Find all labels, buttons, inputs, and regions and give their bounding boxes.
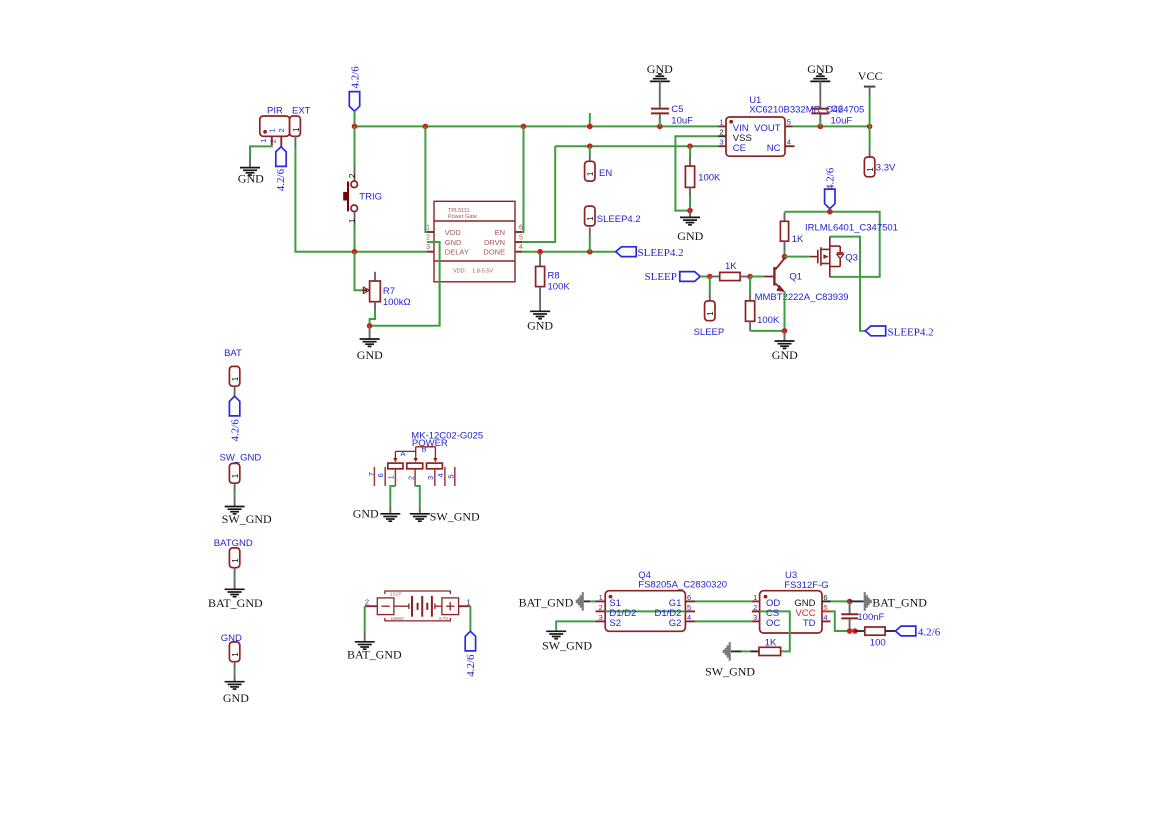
svg-text:DONE: DONE xyxy=(483,248,505,257)
net flag SLEEP xyxy=(645,271,701,283)
wire VOUT to VCC xyxy=(793,125,870,127)
svg-text:EXT: EXT xyxy=(292,105,311,116)
svg-text:2: 2 xyxy=(269,139,278,143)
svg-text:VOUT: VOUT xyxy=(754,123,781,134)
svg-text:1K: 1K xyxy=(725,261,737,272)
switch POWER MK-12C02-G025 xyxy=(367,430,483,486)
svg-text:PIR: PIR xyxy=(267,105,283,116)
svg-text:GND: GND xyxy=(677,229,703,243)
wire bus to VDD pin1 xyxy=(425,126,427,232)
wire bus down to TRIG xyxy=(354,126,356,166)
svg-text:S2: S2 xyxy=(609,618,621,629)
svg-text:100K: 100K xyxy=(548,282,571,293)
capacitor 100nF xyxy=(841,601,884,631)
ground SW_GND symbol xyxy=(222,507,272,527)
connector EN xyxy=(585,146,613,181)
wire TRIG pin1 to DELAY line xyxy=(354,227,356,252)
connector EXT xyxy=(290,105,311,147)
pin 2 D1/D2 xyxy=(596,610,606,612)
wire 100K to emitter GND node xyxy=(750,330,784,332)
SEC-U1 xyxy=(555,62,896,252)
wire C5 to bus xyxy=(659,119,661,126)
ground BAT_GND under battery xyxy=(347,631,402,662)
pin 1 S1 xyxy=(596,600,606,602)
svg-text:1: 1 xyxy=(599,593,603,602)
svg-text:TD: TD xyxy=(803,618,816,629)
wire SLEEP flag to junction xyxy=(700,276,711,278)
svg-text:GND: GND xyxy=(527,319,553,333)
svg-text:SLEEP4.2: SLEEP4.2 xyxy=(888,326,934,338)
svg-text:FS8205A_C2830320: FS8205A_C2830320 xyxy=(638,579,727,590)
pin 2 VSS xyxy=(719,135,727,137)
pin 6 G1 xyxy=(685,600,695,602)
SEC-BATTERY xyxy=(347,591,477,677)
IC U3 FS312F-G xyxy=(752,570,831,652)
svg-text:4.2/6: 4.2/6 xyxy=(229,419,241,442)
pin 5 D1/D2 xyxy=(685,610,695,612)
resistor R7 100k rheostat xyxy=(363,272,411,312)
wire stub above bus xyxy=(589,113,591,126)
junction bus-C5 xyxy=(657,124,663,130)
svg-text:GND: GND xyxy=(238,172,264,186)
svg-text:IRLML6401_C347501: IRLML6401_C347501 xyxy=(805,222,898,233)
wire D1/D2 through xyxy=(605,610,685,612)
junction GND-100nF xyxy=(847,599,853,605)
SEC-TOPLEFT xyxy=(238,105,440,362)
svg-text:DRVN: DRVN xyxy=(484,238,505,247)
svg-text:SLEEP: SLEEP xyxy=(645,271,677,283)
junction bus-netflag xyxy=(352,124,358,130)
pin 6 GND xyxy=(822,600,831,602)
svg-text:GND: GND xyxy=(223,691,249,705)
wire Q4 pin3 to SW_GND xyxy=(556,621,595,629)
junction CE-100K xyxy=(687,143,693,149)
svg-text:6: 6 xyxy=(823,593,827,602)
svg-text:100: 100 xyxy=(870,637,886,648)
svg-text:GND: GND xyxy=(357,348,383,362)
capacitor C6 10uF xyxy=(811,81,852,126)
svg-text:Q1: Q1 xyxy=(789,272,802,283)
pin 3 DELAY xyxy=(427,251,434,253)
wire 1K to Q1 collector node xyxy=(784,251,786,257)
wire DRVN pin5 to CE net xyxy=(522,146,555,242)
svg-text:TRIG: TRIG xyxy=(359,192,382,203)
svg-text:2: 2 xyxy=(277,128,286,132)
svg-text:3: 3 xyxy=(599,613,603,622)
wire battery minus to BAT_GND xyxy=(364,606,366,630)
ground GND under R8 xyxy=(527,311,553,332)
svg-text:4: 4 xyxy=(823,613,827,622)
svg-text:3: 3 xyxy=(426,244,430,251)
resistor R8 100K xyxy=(536,253,571,311)
junction 4.2/6-Q3 xyxy=(827,209,833,215)
svg-text:R7: R7 xyxy=(383,286,395,297)
transistor Q1 MMBT2222A xyxy=(755,258,849,303)
svg-text:5: 5 xyxy=(787,118,791,127)
svg-text:6: 6 xyxy=(519,225,523,232)
ground BAT_GND symbol xyxy=(208,589,263,610)
pin 1 VIN xyxy=(719,125,727,127)
junction 100nF bottom xyxy=(847,628,853,634)
svg-text:CE: CE xyxy=(733,143,746,154)
pin 5 DRVN xyxy=(515,241,522,243)
pin 2 GND xyxy=(427,241,434,243)
connector BATGND xyxy=(214,538,253,589)
svg-text:BAT: BAT xyxy=(224,348,242,359)
svg-text:2: 2 xyxy=(347,173,357,178)
connector SW_GND xyxy=(220,453,262,507)
switch TRIG xyxy=(343,167,382,227)
wire to Q1 base xyxy=(750,276,764,278)
svg-text:2: 2 xyxy=(599,603,603,612)
resistor 1K Q1 collector xyxy=(780,213,804,251)
svg-text:4.2/6: 4.2/6 xyxy=(275,168,287,191)
ground GND above C6 xyxy=(807,62,833,82)
svg-text:5: 5 xyxy=(823,603,827,612)
svg-text:SW_GND: SW_GND xyxy=(430,509,480,523)
svg-text:4.2/6: 4.2/6 xyxy=(465,654,477,677)
junction DELAY-TRIG xyxy=(352,249,358,255)
connector PIR xyxy=(259,105,290,148)
svg-text:100K: 100K xyxy=(698,172,721,183)
svg-text:OC: OC xyxy=(766,618,780,629)
junction collector-gate xyxy=(782,254,788,260)
wire CS to 1K xyxy=(752,611,790,651)
svg-text:NC: NC xyxy=(767,143,781,154)
ground GND under Q1 xyxy=(772,331,798,362)
ground SW_GND under POWER pin2 xyxy=(410,505,480,523)
wire U3 VCC down to 100 row xyxy=(831,611,850,631)
svg-text:1: 1 xyxy=(387,475,396,479)
svg-text:1: 1 xyxy=(753,593,757,602)
junction VOUT-C6 xyxy=(818,124,824,130)
svg-text:BAT_GND: BAT_GND xyxy=(872,596,927,610)
svg-text:BAT_GND: BAT_GND xyxy=(208,596,263,610)
svg-text:GND: GND xyxy=(772,348,798,362)
svg-text:100kΩ: 100kΩ xyxy=(383,297,411,308)
wire VSS net xyxy=(675,136,718,210)
svg-text:EN: EN xyxy=(599,168,612,179)
svg-text:A: A xyxy=(400,449,405,458)
svg-text:4: 4 xyxy=(787,137,791,146)
svg-text:DELAY: DELAY xyxy=(445,248,469,257)
pin 2 CS xyxy=(752,610,760,612)
svg-text:1: 1 xyxy=(347,218,357,223)
svg-text:5: 5 xyxy=(687,603,691,612)
IC Q4 FS8205A xyxy=(596,570,728,632)
svg-text:R8: R8 xyxy=(548,271,560,282)
svg-text:B: B xyxy=(421,445,426,454)
svg-text:SLEEP4.2: SLEEP4.2 xyxy=(597,214,641,225)
svg-text:3: 3 xyxy=(719,137,723,146)
junction DONE-R8 xyxy=(537,249,543,255)
svg-text:18650: 18650 xyxy=(391,616,405,622)
power flag VCC xyxy=(858,69,883,157)
svg-text:2: 2 xyxy=(719,127,723,136)
ground GND under R7 xyxy=(357,326,383,362)
svg-text:1: 1 xyxy=(426,225,430,232)
wire DONE pin4 to SLEEP4.2 flag xyxy=(522,251,616,253)
wire TPL GND pin2 down to R7 ground net xyxy=(427,242,440,326)
svg-text:SW_GND: SW_GND xyxy=(542,638,592,652)
wire EXT pin1 down to DELAY line xyxy=(295,147,427,252)
wire collector node to Q3 gate xyxy=(785,256,810,258)
SEC-TPL xyxy=(425,126,683,332)
port BAT_GND right of U3 xyxy=(850,592,928,611)
SEC-POWERSW xyxy=(353,430,483,523)
svg-text:MMBT2222A_C83939: MMBT2222A_C83939 xyxy=(755,292,849,303)
svg-text:10uF: 10uF xyxy=(831,115,853,126)
svg-text:VDD: VDD xyxy=(445,228,461,237)
svg-text:SW_GND: SW_GND xyxy=(220,453,262,464)
svg-text:Power Gate: Power Gate xyxy=(448,214,477,220)
ground GND above C5 xyxy=(647,62,673,82)
ground GND under 100K xyxy=(677,211,703,243)
svg-text:1K: 1K xyxy=(765,637,777,648)
svg-text:C5: C5 xyxy=(671,104,683,115)
resistor 1K at U3 CS xyxy=(731,637,781,655)
ground GND under PIR xyxy=(238,157,264,186)
pin 4 G2 xyxy=(685,620,695,622)
svg-text:VDD: 1.8-5.5V: VDD: 1.8-5.5V xyxy=(453,269,493,275)
resistor 100 xyxy=(855,627,896,648)
svg-text:6: 6 xyxy=(687,593,691,602)
SEC-LEFTCOL xyxy=(208,348,272,705)
net flag 4.2/6 above Q3 xyxy=(825,167,837,212)
svg-text:2: 2 xyxy=(406,476,415,480)
svg-text:SLEEP: SLEEP xyxy=(694,327,725,338)
net flag SLEEP4.2 bottom right xyxy=(865,326,933,338)
svg-text:SLEEP4.2: SLEEP4.2 xyxy=(638,247,684,259)
connector GND xyxy=(221,633,242,682)
junction 1K-100K-base xyxy=(747,274,753,280)
connector 3.3V xyxy=(864,157,896,177)
svg-text:2: 2 xyxy=(753,603,757,612)
svg-text:4: 4 xyxy=(519,244,523,251)
SEC-Q1Q3 xyxy=(645,167,934,362)
svg-text:SW_GND: SW_GND xyxy=(222,512,272,526)
svg-text:GND: GND xyxy=(445,238,462,247)
svg-text:4.2/6: 4.2/6 xyxy=(918,626,941,638)
battery 18650 3.7V xyxy=(365,591,471,622)
ground GND symbol bottom left xyxy=(223,682,249,705)
wire PIR pin1 to GND xyxy=(250,145,272,157)
svg-text:5: 5 xyxy=(446,474,455,478)
wire bus to EN pin6 xyxy=(522,126,524,232)
pin 4 TD xyxy=(822,620,831,622)
junction R7-GND xyxy=(367,323,373,329)
ground GND under POWER pin1 xyxy=(353,505,401,521)
svg-text:100nF: 100nF xyxy=(857,612,884,623)
svg-text:6: 6 xyxy=(376,473,385,477)
svg-text:2: 2 xyxy=(426,235,430,242)
wire Q1 emitter down xyxy=(784,291,786,331)
resistor 1K Q1 base xyxy=(711,261,750,280)
svg-text:C6: C6 xyxy=(831,104,843,115)
svg-text:4.2/6: 4.2/6 xyxy=(349,66,361,89)
junction CE-EN connector xyxy=(587,143,593,149)
pin 5 VCC xyxy=(822,610,831,612)
wire R7 bottom to GND junction xyxy=(370,242,440,326)
svg-text:4: 4 xyxy=(436,473,445,477)
junction VOUT-VCC xyxy=(867,124,873,130)
IC U2 TPL5111 Power Gate xyxy=(426,201,523,281)
transistor Q3 IRLML6401 xyxy=(805,222,898,277)
svg-text:VCC: VCC xyxy=(858,69,883,83)
svg-text:EN: EN xyxy=(495,228,505,237)
net flag 4.2/6 at battery plus xyxy=(465,631,477,677)
connector BAT xyxy=(224,348,242,396)
pin 1 OD xyxy=(752,600,760,602)
capacitor C5 10uF xyxy=(651,81,693,126)
pin 4 NC xyxy=(785,145,795,147)
junction VCC row xyxy=(852,628,858,634)
wire 4.2/6 rail to Q3 source xyxy=(785,212,880,277)
pin 6 EN xyxy=(515,231,522,233)
svg-text:Q3: Q3 xyxy=(845,252,858,263)
IC U1 XC6210B332MR xyxy=(719,95,865,156)
wire main 4.2/6 bus xyxy=(355,125,719,127)
pin 3 S2 xyxy=(596,620,606,622)
net flag 4.2/6 top xyxy=(349,66,361,127)
pin 1 VDD xyxy=(427,231,434,233)
connector SLEEP4.2 xyxy=(585,206,641,252)
svg-text:3: 3 xyxy=(753,613,757,622)
svg-text:3.3V: 3.3V xyxy=(876,163,896,174)
junction emitter-100K-GND xyxy=(782,328,788,334)
junction bus-VDD xyxy=(423,124,429,130)
svg-text:1: 1 xyxy=(719,118,723,127)
wire Q3 drain to SLEEP4.2 flag xyxy=(830,237,866,331)
svg-text:GND: GND xyxy=(353,507,379,521)
net flag 4.2/6 right of 100 xyxy=(895,626,940,638)
wire POWER pin1 to GND xyxy=(390,486,395,505)
SEC-Q4U3 xyxy=(519,570,941,679)
junction bus-stub xyxy=(587,124,593,130)
net flag 4.2/6 under BAT xyxy=(229,396,241,441)
svg-text:1: 1 xyxy=(292,127,301,132)
svg-text:10uF: 10uF xyxy=(671,115,693,126)
svg-text:3.7V: 3.7V xyxy=(438,616,449,622)
svg-text:1: 1 xyxy=(259,139,268,143)
net flag SLEEP4.2 on DONE line xyxy=(616,247,684,259)
pin 4 DONE xyxy=(515,251,522,253)
svg-text:XC6210B332MR_C424705: XC6210B332MR_C424705 xyxy=(749,104,864,115)
port SW_GND at 1K xyxy=(705,642,755,678)
wire CE net xyxy=(555,145,718,147)
wire battery plus to 4.2/6 xyxy=(469,606,471,631)
port BAT_GND left of Q4 xyxy=(519,592,596,611)
junction DONE-SLEEP4.2 connector xyxy=(587,249,593,255)
ground SW_GND under Q4 xyxy=(542,630,592,653)
svg-text:4.2/6: 4.2/6 xyxy=(825,167,837,190)
svg-text:BAT_GND: BAT_GND xyxy=(347,647,402,661)
MAIN-BUS xyxy=(349,66,872,130)
svg-text:1: 1 xyxy=(268,128,277,132)
svg-text:FS312F-G: FS312F-G xyxy=(784,580,828,591)
resistor 100K Q1 base pulldown xyxy=(746,277,780,331)
svg-text:G2: G2 xyxy=(669,618,682,629)
svg-text:SW_GND: SW_GND xyxy=(705,665,755,679)
svg-text:100K: 100K xyxy=(757,315,780,326)
svg-text:1K: 1K xyxy=(792,234,804,245)
svg-text:BAT_GND: BAT_GND xyxy=(519,596,574,610)
pin 5 VOUT xyxy=(785,125,793,127)
pin 3 OC xyxy=(752,620,760,622)
svg-text:7: 7 xyxy=(367,472,376,476)
wire POWER pin2 to SW_GND xyxy=(415,486,420,505)
wire C6 to bus xyxy=(819,119,821,126)
wire Q4 G2 to U3 OC xyxy=(695,620,752,622)
junction SLEEP-1K xyxy=(707,274,713,280)
connector SLEEP xyxy=(694,277,725,339)
wire Q4 G1 to U3 OD xyxy=(695,600,752,602)
pin 3 CE xyxy=(719,145,727,147)
wire junction down to R7 wiper xyxy=(355,252,363,291)
wire U3 GND to BAT_GND port xyxy=(831,600,850,602)
svg-text:3: 3 xyxy=(426,476,435,480)
svg-text:4: 4 xyxy=(687,613,691,622)
net flag 4.2/6 at PIR pin2 xyxy=(275,147,287,191)
svg-text:5: 5 xyxy=(519,235,523,242)
junction VSS-100K-GND xyxy=(687,208,693,214)
svg-text:1S1P: 1S1P xyxy=(390,591,402,597)
resistor 100K CE pulldown xyxy=(685,146,721,210)
junction bus-EN6 xyxy=(521,124,527,130)
